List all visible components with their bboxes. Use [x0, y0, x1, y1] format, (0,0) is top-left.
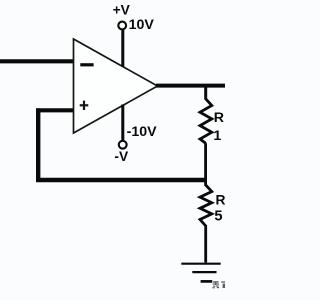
watermark: [212, 281, 225, 288]
wire R1 to feedback junction: [204, 143, 207, 186]
op-amp inverting input marker: [80, 63, 93, 66]
terminal -V: [119, 141, 127, 149]
wire output: [156, 84, 225, 88]
resistor R1: [200, 99, 212, 144]
wire +V supply: [121, 29, 124, 67]
op-amp U1: [74, 39, 158, 133]
ground: [181, 264, 220, 282]
wire -V supply: [121, 105, 124, 141]
svg-text:5: 5: [214, 209, 222, 225]
svg-text:10V: 10V: [129, 17, 155, 33]
svg-text:R: R: [216, 193, 226, 208]
resistor R2: [200, 185, 212, 226]
wire inverting input: [0, 59, 74, 63]
svg-text:1: 1: [213, 128, 221, 144]
svg-text:+V: +V: [113, 3, 131, 18]
svg-text:-10V: -10V: [127, 124, 158, 140]
terminal +V: [118, 22, 126, 30]
wire feedback bottom: [36, 178, 206, 183]
wire output to R1: [204, 86, 207, 100]
op-amp non-inverting input marker: [80, 101, 89, 110]
svg-text:R: R: [214, 110, 224, 126]
svg-text:-V: -V: [114, 149, 129, 164]
wire non-inverting input: [38, 108, 74, 112]
wire R2 to ground: [204, 225, 207, 263]
wire feedback vertical: [36, 108, 40, 182]
